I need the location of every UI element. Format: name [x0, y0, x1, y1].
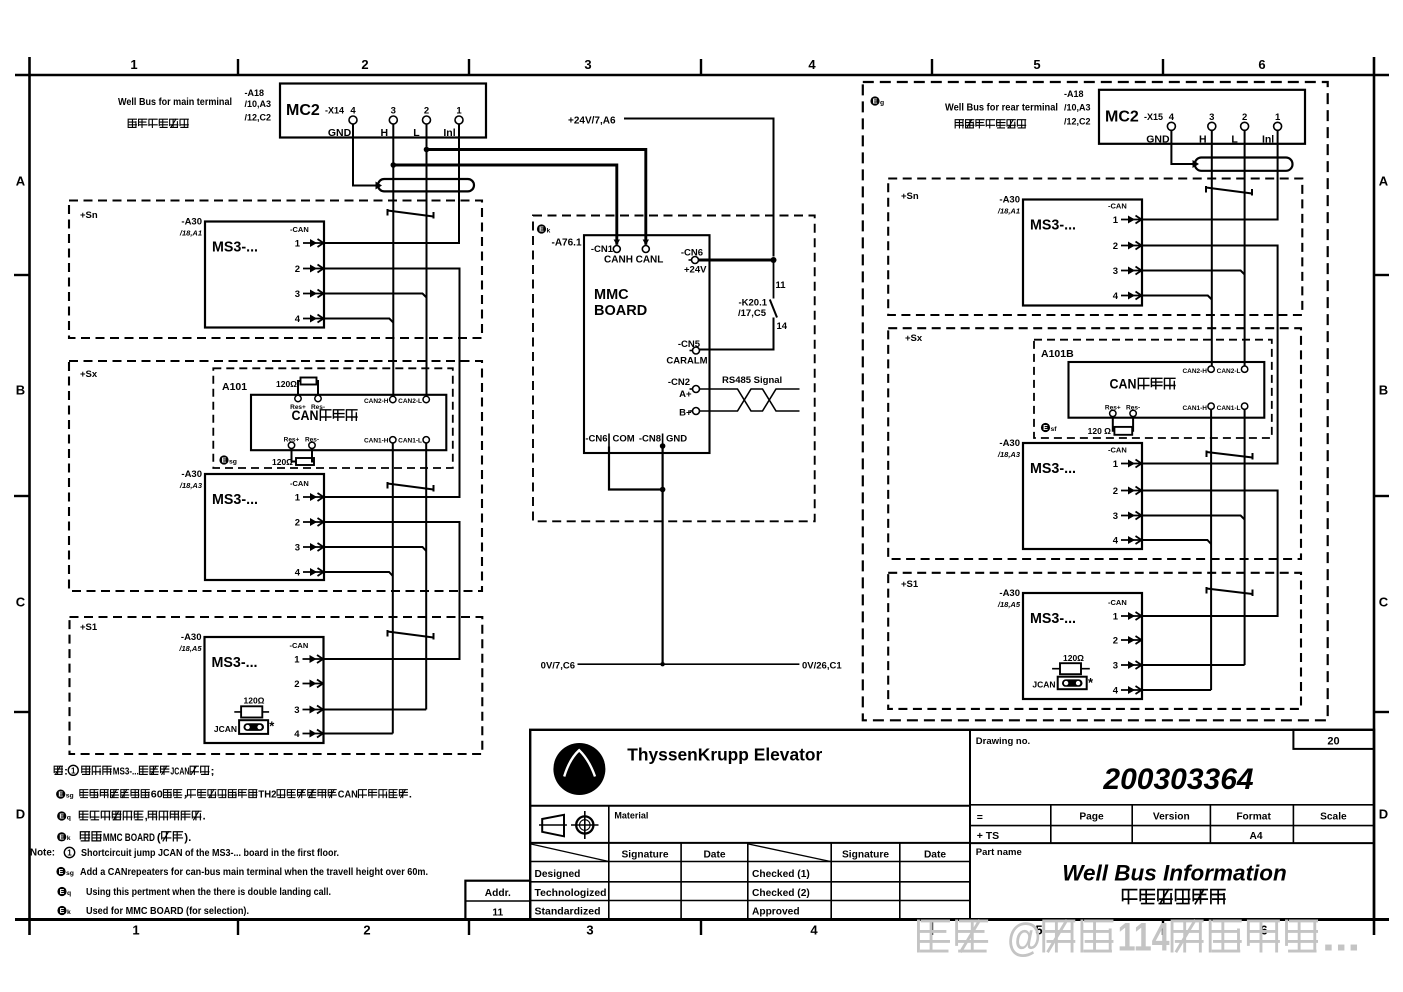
resistor 120R termination in MS3#3 (right): [1052, 653, 1090, 674]
svg-text:1: 1: [132, 923, 139, 938]
svg-text:MS3-...: MS3-...: [113, 766, 139, 777]
svg-text:TH2: TH2: [258, 790, 276, 801]
wire MS3#1 pin4 join H bus (left): [324, 319, 393, 323]
svg-text:4: 4: [1113, 536, 1119, 547]
pin -CN2 A+ of MMC: [668, 377, 700, 400]
pin -CN8 GND bottom of MMC: [639, 434, 687, 449]
svg-text:-CAN: -CAN: [290, 225, 309, 234]
svg-text:+S1: +S1: [901, 579, 919, 590]
svg-text:Well Bus for rear terminal: Well Bus for rear terminal: [945, 102, 1058, 114]
MS3 board -A30 /18,A1 box: [205, 222, 324, 328]
resistor 120R termination in MS3#3 (left): [234, 696, 269, 718]
label +Sn (right): [901, 191, 919, 202]
svg-text:2: 2: [361, 57, 368, 72]
note line 7: english double landing call: [57, 887, 331, 898]
note line 6: english add CAN repeaters: [56, 867, 428, 878]
svg-text:-A30: -A30: [999, 438, 1020, 449]
svg-text:+ TS: + TS: [977, 830, 999, 842]
wire MS3#1 pin4 join H bus (right): [1142, 296, 1212, 300]
company name ThyssenKrupp Elevator: [627, 745, 822, 765]
svg-text:E: E: [59, 869, 64, 876]
subsection +S1 (right) dashed box: [888, 573, 1301, 709]
svg-text:/18,A1: /18,A1: [997, 207, 1020, 216]
first angle projection symbol: [539, 811, 599, 839]
svg-text:CARALM: CARALM: [666, 356, 707, 367]
resistor 120R bottom of A101: [272, 449, 314, 468]
svg-text:MMC: MMC: [594, 287, 629, 303]
svg-text:CAN1-L: CAN1-L: [398, 437, 422, 444]
svg-text:/12,C2: /12,C2: [245, 113, 272, 123]
pin 1 of MS3 /18,A1 with arrow: [295, 239, 324, 250]
svg-text:Inl: Inl: [443, 127, 455, 139]
svg-text:4: 4: [295, 314, 301, 325]
pin circles X14 pins 4,3,2,1: [349, 116, 463, 124]
label -A30 /18,A1: [179, 217, 202, 238]
pin CANL with arrow: [636, 240, 664, 266]
label +24V/7,A6 supply: [568, 116, 616, 127]
svg-text:CAN: CAN: [1110, 376, 1137, 392]
pin CAN2-L of A101B: [1217, 366, 1248, 375]
svg-text:MS3-...: MS3-...: [212, 655, 258, 671]
label MMC BOARD: [594, 287, 647, 319]
svg-text:Res-: Res-: [311, 404, 325, 411]
svg-text:4: 4: [810, 923, 818, 938]
wire L bus (left) MC2 pin2 down to CAN repeater CAN2-L: [426, 125, 428, 397]
svg-text:11: 11: [492, 908, 503, 919]
svg-text:+S1: +S1: [80, 622, 98, 633]
svg-text:Material: Material: [614, 811, 648, 821]
pin labels X15: [1146, 112, 1281, 146]
note marker Esg of A101: [219, 455, 237, 465]
svg-text:MS3-...: MS3-...: [212, 240, 258, 256]
pin 4 of MS3 /18,A5 with arrow: [1113, 686, 1142, 697]
svg-text:1: 1: [1275, 112, 1281, 123]
svg-text:1: 1: [1113, 215, 1119, 226]
wire CAN1-H bus from A101B down to MS3#3 pin4 (right): [1142, 409, 1211, 690]
svg-text:1: 1: [1113, 612, 1119, 623]
pin CAN2-H of A101B: [1182, 366, 1214, 375]
note marker Esf of A101B: [1041, 423, 1057, 433]
CAN repeater A101 dashed box: [213, 368, 452, 468]
label -A30 /18,A3: [997, 438, 1021, 459]
svg-text:E: E: [60, 889, 65, 896]
svg-text:120Ω: 120Ω: [244, 696, 265, 706]
svg-text:E: E: [1043, 425, 1048, 432]
svg-text:A101B: A101B: [1041, 348, 1074, 360]
svg-text:H: H: [381, 127, 389, 139]
svg-text:A4: A4: [1249, 831, 1262, 842]
svg-text:1: 1: [295, 493, 301, 504]
wire MS3#1 pin2 chain down to MS3#2 pin1 (left): [324, 269, 460, 498]
pin -CN1 CANH with arrow: [591, 240, 633, 266]
note line 2 (chinese): add CAN repeater when height over 60m: [56, 790, 412, 801]
svg-text:E: E: [539, 227, 544, 234]
svg-text:@: @: [1007, 916, 1041, 960]
svg-text:200303364: 200303364: [1102, 763, 1253, 796]
wire CAN1-L bus from A101B down to MS3#3 pin3 (right): [1142, 409, 1244, 665]
label -CAN: [290, 479, 309, 488]
svg-text:JCAN: JCAN: [1032, 680, 1055, 690]
pin B+ of MMC: [679, 408, 699, 419]
svg-text:-CAN: -CAN: [290, 479, 309, 488]
svg-text:Addr.: Addr.: [485, 888, 511, 899]
svg-text:A: A: [16, 174, 26, 189]
svg-text:.: .: [409, 790, 412, 801]
note marker Eg of rear group: [870, 96, 884, 106]
svg-text:CANH: CANH: [604, 255, 633, 266]
pin -CN6 +24V of MMC: [681, 248, 707, 276]
svg-text:Scale: Scale: [1320, 812, 1347, 823]
svg-text:GND: GND: [328, 127, 352, 139]
svg-text:3: 3: [586, 923, 593, 938]
label Material: [614, 811, 648, 821]
svg-text:120Ω: 120Ω: [276, 379, 297, 389]
note marker Ek of MMC box: [537, 224, 551, 234]
pin 2 of MS3 /18,A5 with arrow: [1113, 636, 1142, 647]
pin CAN1-L of A101B: [1217, 403, 1248, 412]
watermark zhihu elevator114: [918, 916, 1360, 960]
svg-text:;: ;: [211, 766, 215, 777]
svg-text:2: 2: [1113, 241, 1118, 252]
pin 3 of MS3 /18,A3 with arrow: [1113, 511, 1142, 522]
svg-text:/12,C2: /12,C2: [1064, 117, 1091, 127]
wire MS3#1 pin2 chain down to MS3#2 pin1 (right): [1142, 246, 1277, 464]
wire H bus (left) MC2 pin3 down to CAN repeater CAN2-H: [392, 125, 394, 397]
svg-text:E: E: [59, 814, 64, 821]
wire +24V feed to -CN6: [624, 119, 774, 257]
label +Sx: [80, 369, 98, 380]
label +S1: [80, 622, 98, 633]
svg-text:MS3-...: MS3-...: [1030, 218, 1076, 234]
svg-text:3: 3: [391, 106, 396, 117]
svg-text:q: q: [67, 890, 71, 897]
svg-text:0V/26,C1: 0V/26,C1: [802, 661, 842, 672]
svg-text:MC2: MC2: [1105, 108, 1139, 125]
svg-text:E: E: [59, 834, 64, 841]
svg-text:Signature: Signature: [842, 850, 889, 861]
svg-text:2: 2: [424, 106, 429, 117]
svg-text:Designed: Designed: [535, 869, 581, 880]
pin CAN2-H of A101: [364, 396, 396, 405]
pin circles X15 pins 4,3,2,1: [1167, 122, 1281, 130]
svg-text:k: k: [547, 227, 551, 234]
svg-text:4: 4: [1169, 112, 1175, 123]
svg-text:-A30: -A30: [999, 195, 1020, 206]
svg-text:.: .: [188, 832, 191, 844]
MMC BOARD box: [584, 235, 710, 453]
MS3 board -A30 /18,A3 box: [205, 474, 324, 580]
disconnect link symbol above MS3 #2 (left): [388, 482, 434, 492]
wire CAN1-L bus from A101 down to MS3#3 pin3 (left): [324, 443, 427, 710]
svg-text:3: 3: [584, 57, 591, 72]
svg-text:CAN1-H: CAN1-H: [1182, 405, 1207, 412]
svg-text:11: 11: [776, 280, 787, 291]
svg-text:114: 114: [1118, 916, 1171, 960]
svg-text:4: 4: [295, 568, 301, 579]
label MS3-...: [1030, 461, 1076, 477]
svg-text:/18,A3: /18,A3: [179, 481, 203, 490]
svg-text:0V/7,C6: 0V/7,C6: [541, 661, 575, 672]
connector X14 MC2 box: [280, 84, 486, 138]
wire MS3#2 pin2 chain down to MS3#3 pin1 (left): [324, 522, 460, 659]
pins Res+ Res- bottom of A101: [284, 437, 319, 449]
svg-text:2: 2: [295, 518, 300, 529]
label A101B: [1041, 348, 1074, 360]
svg-text::: :: [64, 766, 68, 777]
disconnect link symbol above MS3 #1 (left): [388, 209, 434, 219]
wire MS3#1 pin3 join L bus (right): [1142, 271, 1244, 275]
title text (chinese): main terminal well bus: [128, 119, 188, 127]
wire H to MMC BOARD CANH (thick): [393, 165, 617, 245]
title text: Well Bus for rear terminal: [945, 102, 1058, 114]
wire GND down to 0V rail: [661, 446, 663, 664]
disconnect link symbol above MS3 #2 (right): [1207, 451, 1253, 460]
svg-text:Signature: Signature: [622, 850, 669, 861]
label CAN repeater (chinese, right): [1110, 376, 1175, 392]
svg-text:sg: sg: [229, 458, 237, 465]
pin CAN1-H of A101B: [1182, 403, 1214, 412]
pin 4 of MS3 /18,A5 with arrow: [294, 729, 323, 740]
svg-text:3: 3: [295, 289, 300, 300]
disconnect link symbol above MS3 #3 (left): [388, 630, 434, 640]
svg-text:1: 1: [130, 57, 137, 72]
label -A76.1: [552, 238, 582, 249]
pins Res+ Res- of A101B: [1105, 405, 1140, 417]
svg-text:E: E: [222, 458, 227, 465]
wire MS3#2 pin2 chain down to MS3#3 pin1 (right): [1142, 491, 1277, 617]
label -CAN: [290, 641, 309, 650]
label RS485 Signal: [722, 375, 782, 386]
svg-text:/18,A3: /18,A3: [997, 450, 1021, 459]
svg-text:MS3-...: MS3-...: [1030, 461, 1076, 477]
svg-text:4: 4: [808, 57, 816, 72]
label -CAN: [1108, 598, 1127, 607]
svg-text:1: 1: [1113, 459, 1119, 470]
drawing number 200303364: [1102, 763, 1253, 796]
part name chinese: well bus communication: [1123, 890, 1225, 904]
svg-text:=: =: [977, 812, 983, 824]
svg-text:3: 3: [294, 705, 299, 716]
svg-text:120Ω: 120Ω: [272, 457, 293, 467]
svg-text:CAN2-H: CAN2-H: [1182, 368, 1207, 375]
label MS3-...: [212, 492, 258, 508]
svg-text:/18,A5: /18,A5: [997, 600, 1021, 609]
svg-text:-CN6: -CN6: [681, 248, 703, 259]
svg-text:-A18: -A18: [1064, 89, 1084, 99]
svg-text:k: k: [67, 909, 71, 916]
svg-text:-CN1: -CN1: [591, 244, 614, 255]
svg-text:CAN2-L: CAN2-L: [398, 398, 422, 405]
pin 4 of MS3 /18,A3 with arrow: [1113, 536, 1142, 547]
svg-text:-CAN: -CAN: [1108, 598, 1127, 607]
title block outer box: [530, 730, 1374, 920]
svg-text:CAN1-H: CAN1-H: [364, 437, 389, 444]
0V rail with references: [541, 661, 843, 672]
pin 1 of MS3 /18,A1 with arrow: [1113, 215, 1142, 226]
svg-text:sg: sg: [66, 870, 74, 877]
svg-text:Version: Version: [1153, 812, 1190, 823]
wire CAN1-H bus from A101 down to MS3#3 pin4 (left): [324, 443, 393, 734]
label -A18 /10,A3 /12,C2 (right): [1064, 89, 1091, 127]
svg-text:4: 4: [1113, 686, 1119, 697]
junction dot H to MMC CANH: [391, 162, 397, 168]
svg-text:MC2: MC2: [286, 102, 320, 119]
resistor 120R top of A101: [276, 378, 318, 396]
label -A30 /18,A3: [179, 469, 203, 490]
svg-text:GND: GND: [1146, 133, 1170, 145]
pin 3 of MS3 /18,A1 with arrow: [295, 289, 324, 300]
MS3 board -A30 /18,A5 box: [205, 637, 324, 743]
pin 3 of MS3 /18,A5 with arrow: [1113, 661, 1142, 672]
svg-text:-CN2: -CN2: [668, 377, 690, 388]
svg-text:2: 2: [295, 264, 300, 275]
svg-text:A: A: [1379, 174, 1389, 189]
CAN repeater box (right): [1069, 362, 1265, 418]
wire Inl from MC2-X15 pin1 to MS3 #1 pin1 (right): [1142, 131, 1277, 220]
svg-text:2: 2: [294, 679, 299, 690]
svg-text:Inl: Inl: [1262, 133, 1274, 145]
svg-text:Res+: Res+: [290, 404, 306, 411]
label -A30 /18,A5: [178, 632, 202, 653]
svg-text:E: E: [58, 792, 63, 799]
label MS3-...: [212, 240, 258, 256]
svg-text:E: E: [60, 908, 65, 915]
shielded cable symbol (right oval): [1195, 158, 1293, 171]
svg-text:JCAN: JCAN: [214, 724, 237, 734]
svg-text:CANL: CANL: [636, 255, 664, 266]
pin 1 of MS3 /18,A5 with arrow: [294, 655, 323, 666]
svg-text:A101: A101: [222, 381, 247, 393]
svg-text:MMC BOARD: MMC BOARD: [103, 832, 155, 844]
svg-text:Note:: Note:: [30, 848, 55, 859]
wire GND from MC2-X15 pin4 to cable shield: [1171, 131, 1192, 165]
note line 8: english used for MMC BOARD: [57, 906, 249, 917]
signature table grid: [530, 843, 970, 920]
connector X15 MC2 box: [1099, 90, 1305, 144]
label -CAN: [1108, 202, 1127, 211]
label -CAN: [1108, 446, 1127, 455]
svg-text:MS3-...: MS3-...: [1030, 611, 1076, 627]
svg-text:-A18: -A18: [245, 88, 265, 98]
option dashed box Eu (rear terminal group): [863, 82, 1328, 720]
subsection +Sn (right) dashed box: [888, 179, 1302, 316]
svg-text:1: 1: [67, 849, 72, 858]
label A101: [222, 381, 247, 393]
svg-text:GND: GND: [666, 434, 687, 445]
svg-text:/18,A5: /18,A5: [178, 644, 202, 653]
CAN repeater box (left): [251, 395, 446, 450]
label -A18 /10,A3 /12,C2 (left): [245, 88, 272, 123]
pin 2 of MS3 /18,A1 with arrow: [1113, 241, 1142, 252]
svg-text:3: 3: [295, 543, 300, 554]
signature table texts: [535, 850, 947, 918]
svg-text:3: 3: [1113, 661, 1118, 672]
subsection +Sx (left) dashed box: [69, 361, 482, 591]
svg-text:C: C: [1379, 595, 1389, 610]
MMC option dashed box: [533, 216, 815, 522]
subsection +Sn (left) dashed box: [69, 201, 482, 339]
wire RS485 A+ crossover pair: [700, 389, 800, 411]
pin CAN1-L of A101: [398, 437, 429, 445]
label Part name: [976, 847, 1022, 858]
svg-text:-K20.1: -K20.1: [738, 298, 767, 309]
svg-text:-X14: -X14: [325, 106, 344, 116]
page version format scale table: [970, 805, 1374, 843]
svg-text:Add a CANrepeaters for can-bus: Add a CANrepeaters for can-bus main term…: [80, 867, 428, 878]
pin -CN5 CARALM of MMC: [666, 339, 707, 367]
svg-text:ThyssenKrupp Elevator: ThyssenKrupp Elevator: [627, 745, 822, 765]
svg-text:(: (: [157, 832, 161, 844]
wire MS3#2 pin3 join CAN1-L bus (left): [324, 547, 426, 551]
junction dot L to MMC CANL: [424, 147, 430, 153]
svg-text:Technologized: Technologized: [535, 888, 607, 899]
svg-text:-X15: -X15: [1144, 112, 1163, 122]
label MS3-...: [212, 655, 258, 671]
svg-text:L: L: [1231, 133, 1238, 145]
MS3 board -A30 /18,A3 box: [1023, 443, 1142, 549]
svg-text:4: 4: [1113, 291, 1119, 302]
svg-text:2: 2: [1113, 486, 1118, 497]
svg-text:6: 6: [1258, 57, 1265, 72]
svg-text:A+: A+: [679, 389, 692, 400]
svg-text:Shortcircuit jump JCAN of the: Shortcircuit jump JCAN of the MS3-... bo…: [81, 848, 339, 859]
relay contact -K20.1 /17,C5 pins 11 14: [700, 260, 788, 350]
wire GND from MC2-X14 pin4 to cable shield: [353, 125, 376, 186]
pin 3 of MS3 /18,A5 with arrow: [294, 705, 323, 716]
pin 3 of MS3 /18,A3 with arrow: [295, 543, 324, 554]
disconnect link symbol above MS3 #1 (right): [1206, 186, 1252, 196]
MS3 board -A30 /18,A1 box: [1023, 200, 1142, 306]
wire MS3#2 pin4 join CAN1-H bus (right): [1142, 540, 1211, 544]
svg-text:RS485 Signal: RS485 Signal: [722, 375, 782, 386]
svg-text:+Sx: +Sx: [905, 333, 923, 344]
title text: Well Bus for main terminal: [118, 96, 232, 108]
pin 1 of MS3 /18,A3 with arrow: [1113, 459, 1142, 470]
svg-text:C: C: [16, 595, 26, 610]
svg-text:Drawing no.: Drawing no.: [976, 736, 1030, 747]
svg-text:Page: Page: [1079, 812, 1104, 823]
label MS3-...: [1030, 218, 1076, 234]
pin 1 of MS3 /18,A3 with arrow: [295, 493, 324, 504]
svg-text:Checked (1): Checked (1): [752, 869, 810, 880]
svg-text:+Sx: +Sx: [80, 369, 98, 380]
pin 1 of MS3 /18,A5 with arrow: [1113, 612, 1142, 623]
subsection +Sx (right) dashed box: [888, 328, 1301, 559]
svg-text:120 Ω: 120 Ω: [1088, 426, 1112, 436]
pin 4 of MS3 /18,A1 with arrow: [1113, 291, 1142, 302]
svg-text:MS3-...: MS3-...: [212, 492, 258, 508]
svg-text:BOARD: BOARD: [594, 303, 647, 319]
pin 4 of MS3 /18,A3 with arrow: [295, 568, 324, 579]
note line 4 (chinese): used for MMC BOARD optional: [57, 832, 191, 844]
part name Well Bus Information: [1062, 861, 1287, 886]
svg-text:Approved: Approved: [752, 907, 800, 918]
svg-text:Format: Format: [1236, 812, 1271, 823]
CAN repeater A101B dashed box: [1034, 340, 1272, 438]
svg-text:JCAN: JCAN: [170, 766, 189, 777]
svg-text:60: 60: [151, 790, 163, 801]
pin 2 of MS3 /18,A1 with arrow: [295, 264, 324, 275]
svg-text:Used for MMC BOARD (for selec: Used for MMC BOARD (for selection).: [86, 906, 249, 917]
svg-text:Standardized: Standardized: [535, 907, 601, 918]
label +Sx (right): [905, 333, 923, 344]
svg-text:B: B: [16, 383, 25, 398]
svg-text:+Sn: +Sn: [80, 210, 98, 221]
svg-text:Date: Date: [924, 850, 946, 861]
svg-text:/17,C5: /17,C5: [738, 308, 767, 319]
wire -CN6 to +24V junction (thick): [699, 257, 777, 263]
svg-text:-A30: -A30: [999, 588, 1020, 599]
